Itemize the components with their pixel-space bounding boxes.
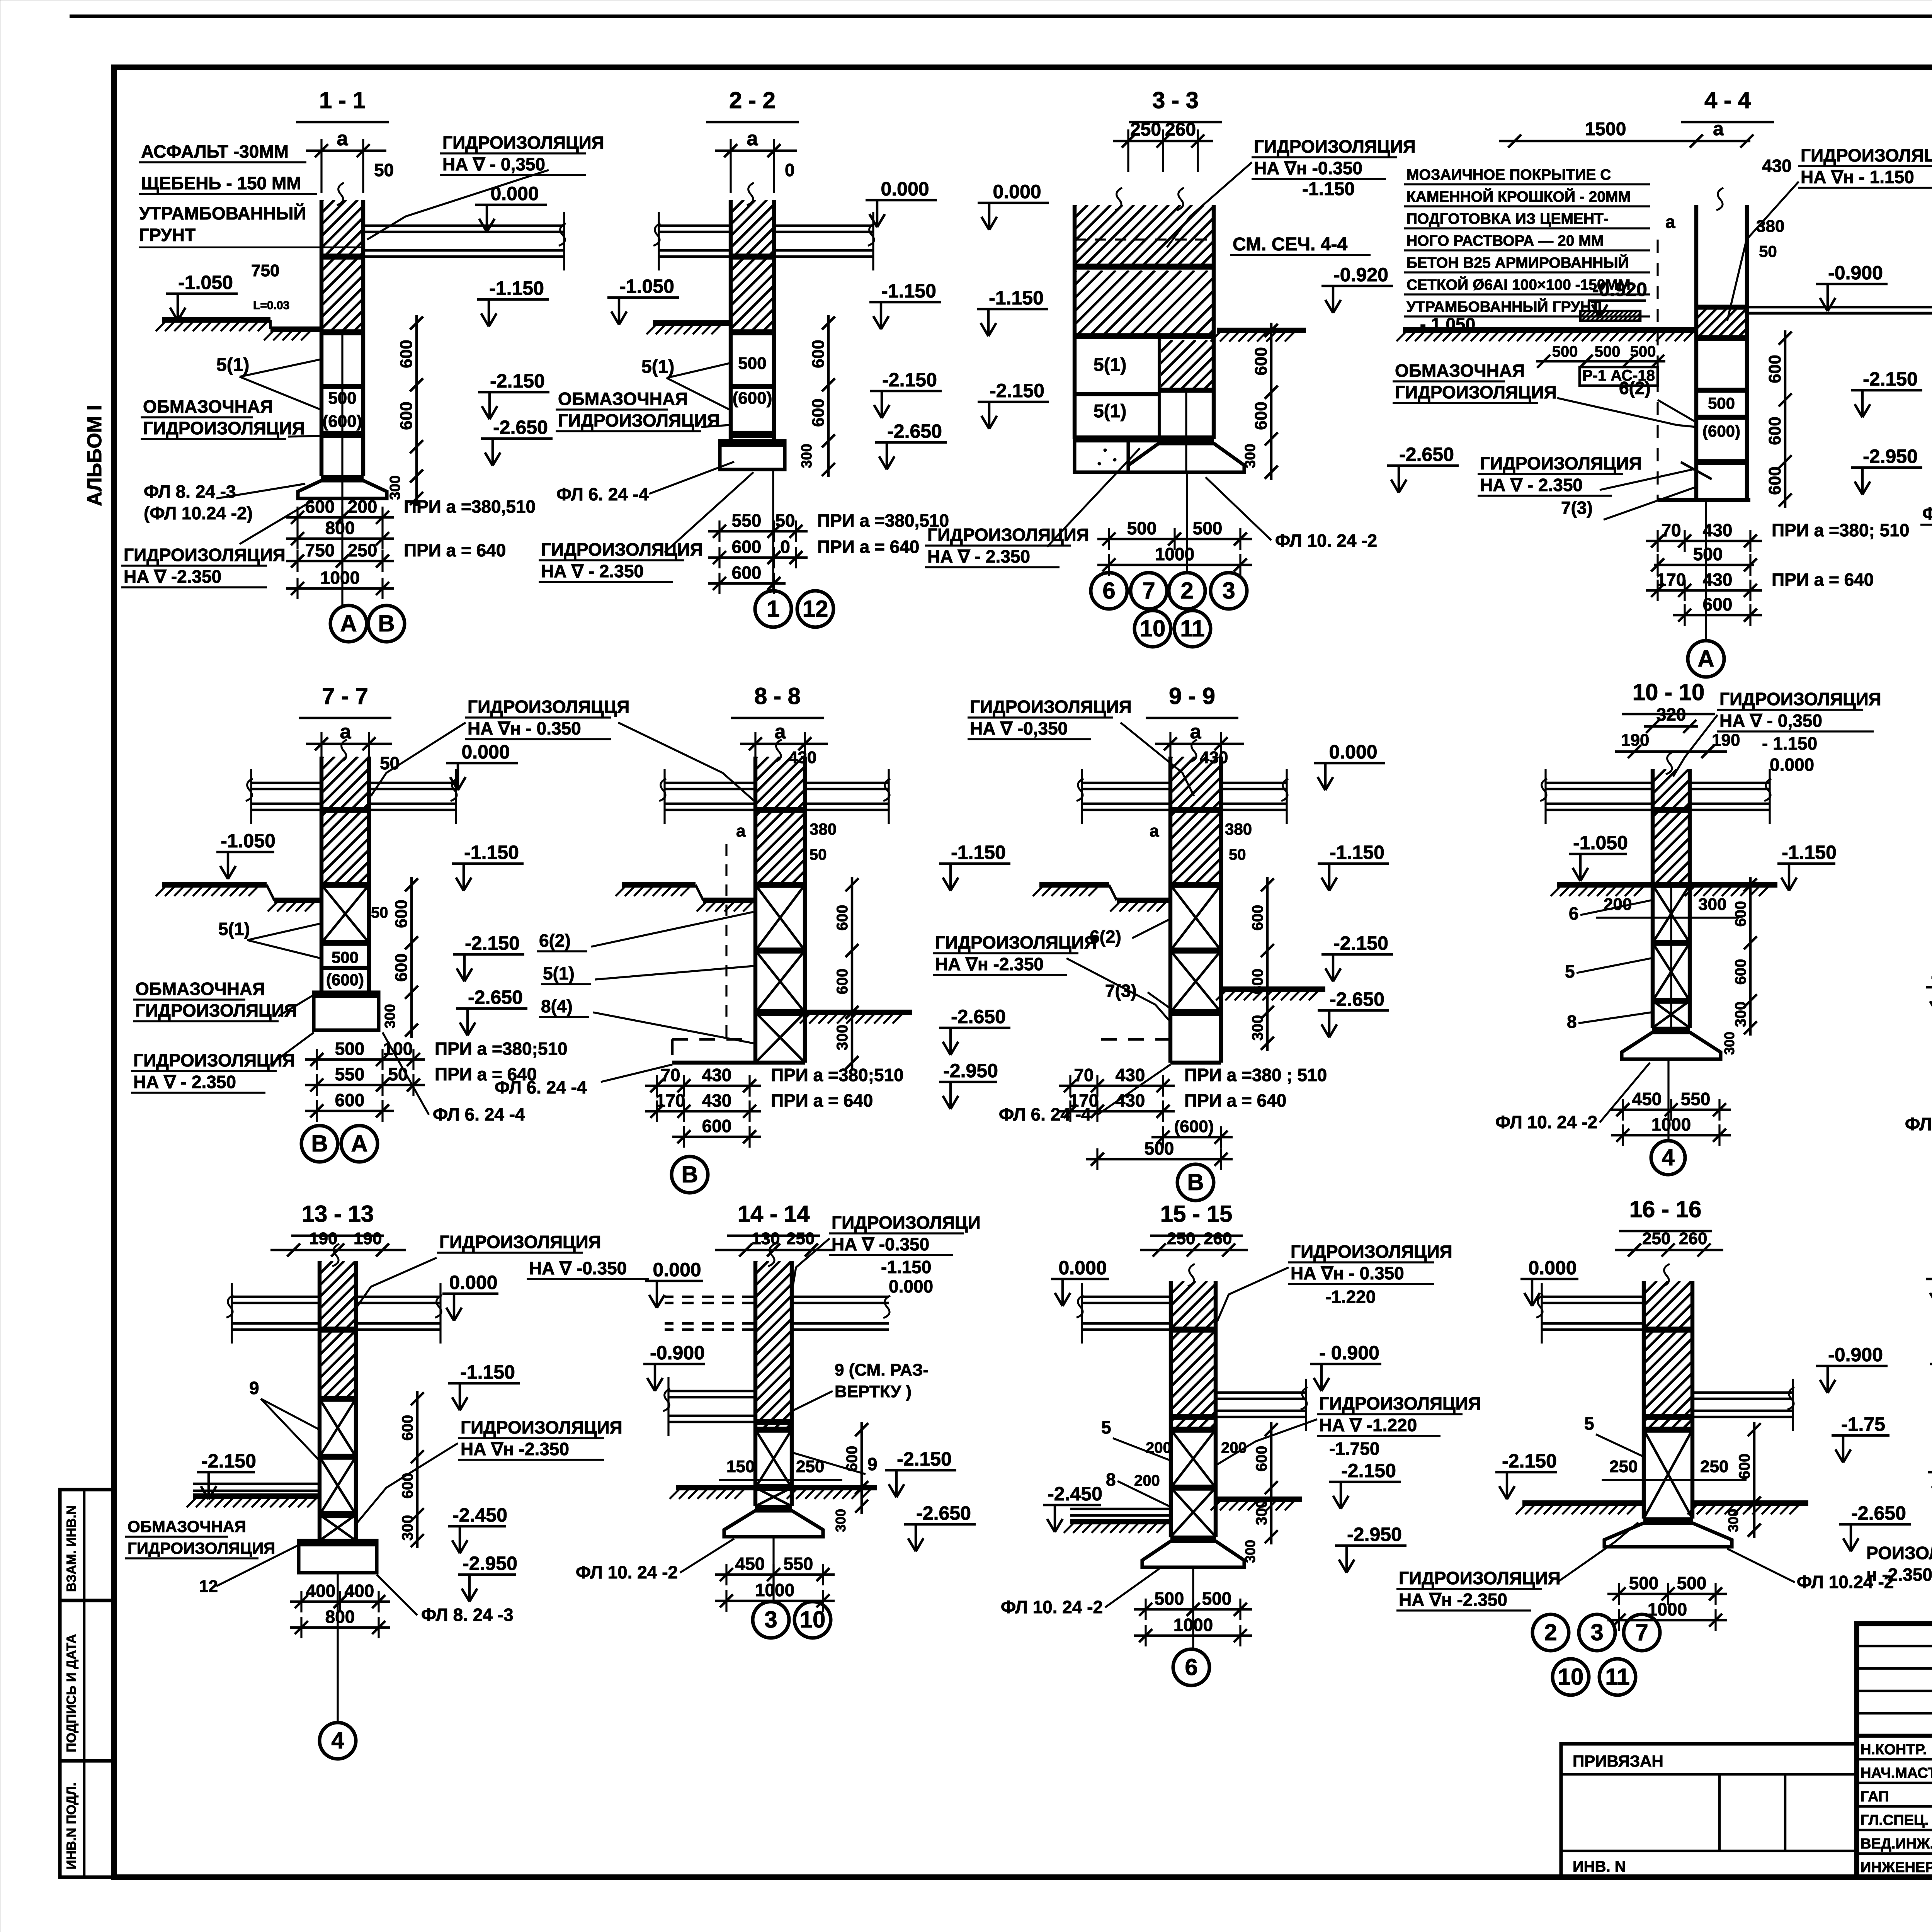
svg-text:600: 600 [397,340,416,368]
svg-text:ГЛ.СПЕЦ.: ГЛ.СПЕЦ. [1861,1812,1929,1828]
svg-text:0.000: 0.000 [1770,755,1814,775]
section 14-14 column [753,1261,757,1506]
section 4-4 vdims [1784,330,1787,508]
svg-text:a: a [736,821,746,840]
svg-text:600: 600 [392,953,411,981]
section 15-15 slab left [1082,1296,1169,1298]
svg-text:380: 380 [1225,820,1252,838]
svg-text:В: В [681,1162,698,1187]
section 13-13 pad rect [299,1541,377,1573]
svg-text:300: 300 [1242,444,1259,468]
svg-text:-1.150: -1.150 [989,287,1044,309]
svg-text:НА ∇н -2.350: НА ∇н -2.350 [935,954,1044,974]
section 16-16 x blocks [1644,1427,1692,1433]
svg-text:300: 300 [833,1509,849,1532]
section 13-13 top dims [270,1249,406,1252]
svg-text:500: 500 [1552,343,1578,360]
svg-text:-1.750: -1.750 [1329,1439,1379,1459]
section 4-4 dim table [1646,540,1762,543]
svg-text:ПРИ a = 640: ПРИ a = 640 [1772,570,1874,590]
svg-text:В: В [311,1131,328,1156]
svg-text:0.000: 0.000 [889,1276,933,1296]
svg-text:300: 300 [1721,1032,1737,1055]
svg-text:ПРИ a = 640: ПРИ a = 640 [1184,1090,1286,1111]
section 15-15 axis circle [1192,1567,1194,1648]
section 4-4 slab right [1748,306,1932,309]
title block main header line [1857,1734,1932,1738]
section 13-13 column [318,1261,321,1541]
section 10-10 dim table [1611,1109,1731,1111]
svg-text:600: 600 [834,905,851,931]
section 14-14 vdims [861,1422,863,1514]
svg-text:-1.150: -1.150 [1302,179,1355,199]
svg-text:-1.050: -1.050 [619,276,674,297]
section 7-7 pad rect [314,992,379,1030]
section 16-16 column [1642,1281,1646,1519]
svg-text:800: 800 [325,1607,355,1627]
svg-text:ГИДРОИЗОЛЯЦИЯ: ГИДРОИЗОЛЯЦИЯ [461,1417,622,1437]
svg-text:0.000: 0.000 [1528,1257,1577,1279]
section 4-4 column [1694,205,1698,500]
svg-text:- 1.150: - 1.150 [1762,733,1817,753]
svg-text:7 - 7: 7 - 7 [322,683,368,709]
section 14-14 x blocks [755,1427,792,1433]
svg-text:НА ∇ -0.350: НА ∇ -0.350 [832,1234,929,1254]
svg-text:-2.950: -2.950 [1863,446,1918,467]
svg-text:3: 3 [1590,1619,1603,1645]
section 13-13 slabs [232,1296,318,1298]
section 10-10 pad trap [1622,1032,1721,1059]
svg-text:14 - 14: 14 - 14 [738,1201,810,1227]
svg-text:-2.150: -2.150 [897,1448,952,1470]
section 1-1 foundation pad FL8.24-3 [298,481,387,498]
svg-text:200: 200 [348,497,378,517]
svg-text:600: 600 [809,340,828,368]
svg-text:НА ∇ - 2.350: НА ∇ - 2.350 [133,1072,236,1092]
section 3-3 vertical dims [1270,323,1273,480]
svg-text:1000: 1000 [1155,544,1194,564]
section 16-16 grounds [1522,1500,1644,1506]
svg-text:3 - 3: 3 - 3 [1152,87,1199,113]
role rows lines [1857,1758,1932,1761]
privyazan row line [1561,1773,1857,1776]
svg-text:50: 50 [371,904,388,921]
svg-text:ФЛ 6. 24 -4: ФЛ 6. 24 -4 [433,1104,525,1124]
svg-text:380: 380 [810,820,837,838]
svg-text:6: 6 [1569,903,1579,923]
section 2-2 ground left [653,320,729,326]
svg-text:(600): (600) [733,389,772,408]
svg-text:ПРИ a =380; 510: ПРИ a =380; 510 [1772,520,1909,540]
section 7-7 ground left [162,882,267,888]
section 13-13 x blocks [320,1396,356,1402]
svg-text:600: 600 [1732,901,1749,927]
section 4-4 lower separators [1696,388,1747,393]
svg-text:-1.150: -1.150 [464,842,519,863]
svg-text:А: А [1697,646,1714,672]
svg-text:В: В [1187,1169,1204,1195]
svg-text:600: 600 [399,1473,416,1499]
svg-text:ГИДРОИЗОЛЯЦИЯ: ГИДРОИЗОЛЯЦИЯ [1801,145,1932,165]
svg-text:НА ∇н - 0.350: НА ∇н - 0.350 [1291,1263,1404,1283]
svg-text:170: 170 [656,1090,685,1111]
section 13-13 axis circle [337,1573,338,1722]
svg-text:НА ∇ -0.350: НА ∇ -0.350 [529,1258,627,1278]
section 14-14 pad trap [724,1511,823,1537]
section 14-14 dashed slab top [665,1296,754,1298]
section 9-9 x blocks [1170,882,1221,888]
svg-text:10 - 10: 10 - 10 [1633,679,1705,705]
section 4-4 axis circle [1705,500,1707,639]
section 2-2 vertical dims [827,315,830,477]
svg-text:-2.150: -2.150 [1341,1460,1396,1481]
sidebar box INV N PODL [60,1761,114,1877]
svg-text:300: 300 [387,475,403,500]
svg-text:600: 600 [844,1446,861,1472]
svg-text:380: 380 [1756,217,1784,236]
section 4-4 dims 500x3 [1536,360,1665,363]
svg-text:500: 500 [1155,1588,1184,1609]
section 1-1 axis circles [341,498,343,605]
svg-text:260: 260 [1204,1229,1232,1248]
svg-text:430: 430 [1703,520,1733,540]
svg-text:-2.650: -2.650 [493,417,548,438]
svg-text:-1.220: -1.220 [1325,1287,1376,1307]
svg-text:260: 260 [1679,1229,1707,1248]
section 2-2 slab left [659,224,729,227]
svg-text:ГИДРОИЗОЛЯЦИЯ: ГИДРОИЗОЛЯЦИЯ [135,1000,297,1020]
svg-text:200: 200 [1146,1439,1172,1456]
svg-text:250: 250 [1609,1457,1638,1476]
svg-text:УТРАМБОВАННЫЙ ГРУНТ: УТРАМБОВАННЫЙ ГРУНТ [1406,298,1600,315]
svg-text:3: 3 [764,1607,777,1633]
section 3-3 bottom band [1075,435,1214,442]
svg-text:н -2.350: н -2.350 [1866,1565,1932,1585]
title block outer frame [1857,1624,1932,1877]
svg-text:4: 4 [1662,1145,1675,1170]
svg-text:600: 600 [702,1116,732,1136]
svg-text:УТРАМБОВАННЫЙ: УТРАМБОВАННЫЙ [139,203,306,223]
svg-text:-2.150: -2.150 [490,370,545,392]
svg-text:500: 500 [1677,1573,1707,1593]
svg-text:-1.050: -1.050 [221,830,276,852]
svg-text:-1.150: -1.150 [951,842,1006,863]
svg-text:-2.150: -2.150 [1333,932,1388,954]
section 3-3 slab dashes [1075,238,1214,240]
section 10-10 slabs [1546,782,1651,784]
svg-text:250: 250 [1130,119,1161,140]
svg-text:70: 70 [1661,520,1681,540]
svg-text:ГИДРОИЗОЛЯЦИЯ: ГИДРОИЗОЛЯЦИЯ [143,418,305,438]
svg-text:9 (СМ. РАЗ-: 9 (СМ. РАЗ- [835,1361,929,1379]
section 15-15 slab right lower [1217,1391,1306,1394]
svg-text:a: a [747,128,759,150]
svg-text:(ФЛ 10.24 -2): (ФЛ 10.24 -2) [144,503,253,523]
svg-text:ГАП: ГАП [1861,1789,1889,1805]
svg-text:800: 800 [325,518,355,538]
svg-text:ФЛ 10. 24 -2: ФЛ 10. 24 -2 [1495,1112,1597,1132]
svg-text:ГИДРОИЗОЛЯЦИ: ГИДРОИЗОЛЯЦИ [832,1213,981,1233]
section 7-7 column [320,757,323,992]
section 10-10 vdims [1749,877,1752,1036]
svg-text:250: 250 [348,540,378,560]
svg-text:150: 150 [726,1457,755,1476]
svg-text:4 - 4: 4 - 4 [1704,87,1751,113]
svg-text:430: 430 [1116,1065,1145,1085]
svg-text:ФЛ 6. 24 -4: ФЛ 6. 24 -4 [999,1104,1091,1124]
svg-text:500: 500 [1595,343,1621,360]
svg-text:МОЗАИЧНОЕ ПОКРЫТИЕ С: МОЗАИЧНОЕ ПОКРЫТИЕ С [1406,167,1611,183]
svg-text:-2.450: -2.450 [1048,1483,1102,1505]
svg-text:320: 320 [1656,704,1686,724]
svg-text:50: 50 [1229,846,1246,863]
svg-text:0.000: 0.000 [461,741,510,763]
svg-text:ПРИ a = 640: ПРИ a = 640 [404,540,506,560]
section 3-3 inner column right [1158,336,1161,439]
svg-text:50: 50 [1759,242,1777,260]
svg-text:ОБМАЗОЧНАЯ: ОБМАЗОЧНАЯ [143,396,273,417]
svg-text:ВЗАМ. ИНВ.N: ВЗАМ. ИНВ.N [64,1505,79,1592]
svg-text:ГИДРОИЗОЛЯЦИЯ: ГИДРОИЗОЛЯЦИЯ [1254,136,1416,156]
svg-text:5: 5 [1565,961,1575,981]
section 1-1 block separators [321,253,363,260]
svg-text:7(3): 7(3) [1561,498,1593,518]
section 10-10 x blocks [1653,882,1690,888]
section 7-7 vdims [410,877,413,1038]
svg-text:ПРИ a = 640: ПРИ a = 640 [817,537,919,557]
svg-text:50: 50 [810,846,827,863]
svg-text:6: 6 [1102,578,1115,604]
svg-text:7: 7 [1142,578,1155,604]
sidebar box PODPIS I DATA [60,1600,114,1761]
svg-text:600: 600 [1703,594,1733,614]
svg-text:70: 70 [660,1065,680,1085]
svg-text:500: 500 [332,948,359,966]
svg-text:a: a [1150,821,1159,840]
section 2-2 pad FL6.24-4 [720,441,785,469]
svg-text:8: 8 [1106,1469,1116,1490]
svg-text:9 - 9: 9 - 9 [1169,683,1215,709]
svg-text:550: 550 [732,510,762,531]
svg-text:НА ∇н -2.350: НА ∇н -2.350 [461,1439,569,1459]
svg-text:-2.150: -2.150 [465,932,520,954]
svg-text:ГИДРОИЗОЛЯЦИЯ: ГИДРОИЗОЛЯЦИЯ [442,133,604,153]
svg-text:1: 1 [767,596,779,622]
svg-text:2: 2 [1544,1619,1557,1645]
svg-text:0.000: 0.000 [993,181,1041,202]
section 14-14 dim table [715,1573,835,1576]
svg-text:-2.950: -2.950 [943,1060,998,1082]
svg-text:5(1): 5(1) [1094,355,1126,375]
svg-text:ФЛ 10. 24 -2: ФЛ 10. 24 -2 [576,1562,678,1582]
section 1-1 slab right [365,224,564,227]
section 9-9 vdims [1266,877,1269,1051]
svg-text:НАЧ.МАСТ.: НАЧ.МАСТ. [1861,1765,1932,1781]
svg-text:a: a [1665,212,1675,232]
svg-text:-2.650: -2.650 [468,986,523,1008]
svg-text:-2.950: -2.950 [463,1553,517,1574]
svg-text:9: 9 [249,1378,259,1398]
svg-text:190: 190 [1621,731,1649,750]
section 15-15 x blocks [1171,1427,1216,1433]
svg-text:-1.150: -1.150 [460,1361,515,1383]
section 9-9 column [1168,757,1172,1063]
section 3-3 dim table [1097,538,1252,541]
section 8-8 x blocks [755,882,805,888]
svg-text:НА ∇ - 2.350: НА ∇ - 2.350 [927,546,1030,566]
section 15-15 grounds [1070,1508,1171,1510]
svg-text:Н.КОНТР.: Н.КОНТР. [1861,1742,1927,1758]
svg-text:50: 50 [374,160,394,180]
svg-text:ЩЕБЕНЬ - 150 ММ: ЩЕБЕНЬ - 150 ММ [141,173,301,193]
svg-text:0.000: 0.000 [1329,741,1377,763]
svg-text:6(2): 6(2) [1619,378,1651,398]
section 16-16 slab left [1542,1296,1642,1298]
section 14-14 grounds [676,1485,755,1490]
svg-text:НА ∇ - 2.350: НА ∇ - 2.350 [541,561,644,581]
svg-text:1 - 1: 1 - 1 [319,87,366,113]
svg-text:ГИДРОИЗОЛЯЦИЯ: ГИДРОИЗОЛЯЦИЯ [970,697,1132,717]
svg-text:550: 550 [1681,1089,1711,1109]
title block thin rows left [1857,1645,1932,1648]
svg-text:1500: 1500 [1585,119,1626,139]
section 4-4 bottom line [1658,498,1750,502]
svg-text:В: В [378,611,395,636]
svg-text:450: 450 [1632,1089,1662,1109]
svg-text:ГИДРОИЗОЛЯЦИЯ: ГИДРОИЗОЛЯЦИЯ [1291,1242,1452,1262]
section 10-10 ground [1557,882,1651,888]
svg-text:600: 600 [1765,417,1784,445]
svg-text:-2.450: -2.450 [452,1504,507,1526]
svg-text:4: 4 [331,1728,344,1753]
svg-text:600: 600 [732,537,762,557]
svg-text:ОБМАЗОЧНАЯ: ОБМАЗОЧНАЯ [128,1517,246,1536]
svg-text:300: 300 [1249,1015,1266,1041]
svg-text:НА ∇н -0.350: НА ∇н -0.350 [1254,158,1362,178]
section 2-2 top dim a [715,150,797,152]
svg-text:ГИДРОИЗОЛЯЦИЯ: ГИДРОИЗОЛЯЦИЯ [1399,1568,1561,1588]
svg-text:3: 3 [1222,578,1235,604]
sidebar inner line [83,1490,86,1877]
svg-text:600: 600 [809,398,828,427]
svg-text:430: 430 [702,1065,732,1085]
svg-text:ГИДРОИЗОЛЯЦИЯ: ГИДРОИЗОЛЯЦИЯ [541,539,703,560]
svg-text:-1.050: -1.050 [1573,832,1628,854]
svg-text:0.000: 0.000 [490,183,539,204]
svg-text:КАМЕННОЙ КРОШКОЙ - 20ММ: КАМЕННОЙ КРОШКОЙ - 20ММ [1406,188,1631,205]
svg-text:600: 600 [1252,347,1270,375]
section 13-13 dim table [290,1600,390,1603]
section 16-16 vdims [1753,1422,1756,1538]
svg-text:ИНВ.N ПОДЛ.: ИНВ.N ПОДЛ. [64,1782,79,1869]
section 3-3 ground right [1217,328,1306,333]
svg-text:190: 190 [309,1229,337,1248]
section 8-8 vdims [851,877,854,1070]
section 8-8 ground right lower [806,1010,912,1015]
svg-text:НА ∇н - 0.350: НА ∇н - 0.350 [468,718,581,738]
svg-text:600: 600 [834,969,851,995]
svg-text:600: 600 [1736,1454,1753,1480]
svg-text:1000: 1000 [1648,1599,1687,1619]
section 15-15 pad trap [1142,1541,1244,1567]
section 15-15 dim table [1134,1608,1252,1611]
svg-text:0.000: 0.000 [881,178,929,200]
sidebar box VZAM INV N [60,1490,114,1600]
svg-text:a: a [337,128,349,150]
svg-text:-1.150: -1.150 [1782,842,1837,863]
svg-text:А: А [351,1131,367,1156]
svg-text:ГИДРОИЗОЛЯЦИЯ: ГИДРОИЗОЛЯЦИЯ [1395,382,1557,402]
section 1-1 dim table [286,516,394,519]
svg-text:500: 500 [1693,544,1723,564]
svg-text:-0.900: -0.900 [650,1342,705,1364]
svg-text:600: 600 [397,401,416,430]
svg-text:НА ∇ -2.350: НА ∇ -2.350 [124,566,221,587]
section 2-2 axis circles [772,469,774,590]
svg-text:НА ∇ -0,350: НА ∇ -0,350 [970,718,1068,738]
section 9-9 axis circle [1177,1164,1214,1201]
svg-text:0.000: 0.000 [449,1272,497,1293]
svg-text:-1.150: -1.150 [881,1257,931,1277]
svg-text:5: 5 [1101,1417,1111,1437]
svg-text:6: 6 [1185,1654,1197,1680]
section 3-3 pad trap right [1128,444,1244,472]
section 7-7 top dim a [306,743,392,745]
svg-text:-0.920: -0.920 [1333,264,1388,286]
svg-text:8(4): 8(4) [541,996,573,1016]
svg-text:430: 430 [702,1090,732,1111]
svg-text:300: 300 [1732,1002,1749,1027]
svg-text:ПРИВЯЗАН: ПРИВЯЗАН [1573,1752,1663,1770]
svg-text:130: 130 [752,1229,780,1248]
section 9-9 dashed pit [1101,1038,1170,1041]
svg-text:НА ∇н - 1.150: НА ∇н - 1.150 [1801,167,1914,187]
svg-text:ПОДГОТОВКА ИЗ ЦЕМЕНТ-: ПОДГОТОВКА ИЗ ЦЕМЕНТ- [1406,211,1609,227]
svg-text:16 - 16: 16 - 16 [1629,1196,1702,1222]
svg-text:ФЛ 6. 24 -4: ФЛ 6. 24 -4 [556,484,649,504]
svg-text:(600): (600) [1702,422,1740,440]
section 8-8 dim table [645,1085,761,1087]
svg-text:600: 600 [1249,969,1266,995]
section 1-1 ground left [162,317,270,323]
sheet outer border top [70,14,1932,18]
svg-text:7(3): 7(3) [1105,981,1137,1001]
svg-text:-0.900: -0.900 [1828,262,1883,284]
svg-text:ГИДРОИЗОЛЯЦИЯ: ГИДРОИЗОЛЯЦИЯ [133,1050,295,1070]
privyazan table frame [1561,1744,1857,1877]
svg-text:-2.150: -2.150 [882,369,937,391]
section 3-3 axis circles [1186,472,1188,572]
svg-text:15 - 15: 15 - 15 [1160,1201,1233,1227]
svg-text:НА ∇ - 2.350: НА ∇ - 2.350 [1480,475,1583,495]
svg-text:ГИДРОИЗОЛЯЦИЯ: ГИДРОИЗОЛЯЦИЯ [124,545,286,565]
section 10-10 axis circle [1667,1059,1669,1140]
section 7-7 slabs [251,782,320,784]
svg-text:10: 10 [800,1607,826,1633]
svg-text:a: a [1713,118,1724,139]
section 15-15 top dims [1140,1249,1248,1252]
svg-text:ФЛ 10. 24 -2: ФЛ 10. 24 -2 [1922,503,1932,524]
svg-text:-2.150: -2.150 [990,380,1044,401]
svg-text:1000: 1000 [1651,1114,1691,1134]
section 1-1 vertical dims [415,315,418,506]
svg-text:- 0.900: - 0.900 [1319,1342,1379,1364]
svg-text:250: 250 [1700,1457,1728,1476]
svg-text:600: 600 [335,1090,365,1110]
svg-text:ГРУНТ: ГРУНТ [139,225,196,245]
section 16-16 top dims [1615,1249,1723,1252]
svg-text:750: 750 [305,540,335,560]
